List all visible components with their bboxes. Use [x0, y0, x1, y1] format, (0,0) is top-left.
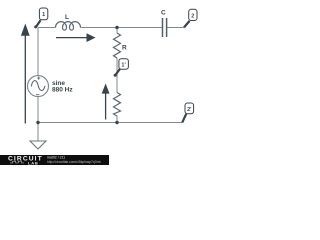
svg-text:880 Hz: 880 Hz	[52, 86, 73, 93]
junction dot bottom branch	[115, 121, 118, 124]
svg-text:http://circuitlab.com/c/5kpfxw: http://circuitlab.com/c/5kpfxwp7q7mk	[47, 160, 101, 164]
wire top rail left	[38, 27, 56, 29]
resistor R2 (lower)	[114, 93, 121, 117]
wire branch stub top	[116, 28, 118, 34]
voltage source V1 circle	[28, 76, 49, 97]
junction dot bottom left	[36, 121, 39, 124]
wire between R1 and R2	[116, 58, 118, 93]
svg-text:1': 1'	[121, 63, 126, 69]
node flag 2'	[182, 103, 193, 123]
svg-text:R: R	[122, 44, 127, 51]
wire ground stub	[37, 123, 39, 142]
ground symbol	[30, 141, 46, 149]
wire left vertical lower	[37, 97, 39, 123]
node flag 1'	[114, 59, 129, 77]
voltage source minus sign	[36, 94, 39, 96]
wire top rail right of capacitor	[167, 27, 184, 29]
svg-text:2: 2	[191, 13, 194, 19]
svg-text:LAB: LAB	[28, 160, 39, 165]
svg-text:mat02 / 211: mat02 / 211	[47, 156, 65, 160]
annotation arrow left (voltage arrow up)	[21, 24, 30, 124]
wire bottom rail	[38, 122, 182, 124]
svg-text:1: 1	[42, 12, 45, 18]
node flag 2	[184, 9, 197, 27]
svg-text:L: L	[65, 14, 69, 21]
node flag 1	[34, 8, 48, 28]
voltage source plus sign	[37, 77, 40, 80]
junction dot top (node between L, R, C)	[115, 26, 118, 29]
annotation arrow horizontal (current arrow right, under L)	[56, 33, 96, 42]
resistor R1 (upper, labelled R)	[114, 33, 121, 58]
wire left vertical upper	[37, 28, 39, 76]
svg-text:C: C	[161, 9, 166, 16]
annotation arrow right (voltage arrow up, beside R2)	[102, 84, 110, 120]
capacitor C	[163, 18, 167, 37]
watermark footer bar	[0, 155, 109, 165]
wire top rail middle	[81, 27, 163, 29]
svg-text:2': 2'	[187, 107, 192, 113]
wire branch stub bottom	[116, 116, 118, 123]
inductor L	[56, 22, 81, 31]
voltage source sine squiggle	[31, 81, 45, 91]
